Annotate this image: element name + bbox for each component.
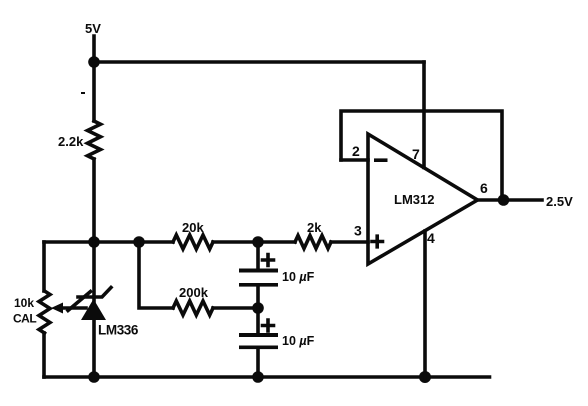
junction dot output node xyxy=(498,194,510,206)
plus sign C1 xyxy=(263,255,274,266)
junction dot rail LM336 xyxy=(88,371,100,383)
wire 5V lead down to 2.2k top xyxy=(92,36,96,121)
wire cap C1 top lead xyxy=(256,242,260,268)
label 2.2k xyxy=(58,134,84,149)
label 10uF C1 xyxy=(282,270,315,284)
wire LM336 vertical lead xyxy=(92,242,96,377)
junction dot cap mid node xyxy=(252,302,264,314)
junction dot mid node xyxy=(88,236,100,248)
resistor 20k zigzag xyxy=(173,235,213,249)
wire 2.2k bottom to mid node xyxy=(92,159,96,242)
wire cap C1 bottom to C2 top xyxy=(256,286,260,333)
resistor 200k zigzag xyxy=(173,301,213,315)
wire pin 4 drop to rail xyxy=(423,231,427,377)
label 10k xyxy=(14,296,34,310)
wire pin7 supply drop xyxy=(422,62,426,168)
junction dot cap top node xyxy=(252,236,264,248)
svg-text:10 µF: 10 µF xyxy=(282,334,315,348)
label LM336 xyxy=(98,323,139,338)
resistor 2.2k zigzag xyxy=(88,121,101,159)
label 2.5V xyxy=(546,194,573,209)
svg-text:2k: 2k xyxy=(307,220,322,235)
ground rail xyxy=(44,375,490,379)
svg-text:LM336: LM336 xyxy=(98,323,139,338)
svg-text:10 µF: 10 µF xyxy=(282,270,315,284)
op-amp LM312 triangle xyxy=(368,134,478,264)
pot wiper arrow xyxy=(51,303,86,314)
wire 2k to op-amp pin 3 xyxy=(331,240,368,244)
svg-text:3: 3 xyxy=(354,223,362,239)
junction dot rail pin4 xyxy=(419,371,431,383)
power label 5V xyxy=(85,21,101,36)
svg-text:5V: 5V xyxy=(85,21,101,36)
wire top rail from 5V node to pin7 drop xyxy=(94,60,424,64)
label 20k xyxy=(182,220,204,235)
capacitor C2 10uF plates xyxy=(239,333,278,349)
junction dot branch node xyxy=(133,236,145,248)
wire cap C2 bottom lead xyxy=(256,349,260,377)
wire output xyxy=(477,198,542,202)
svg-text:10k: 10k xyxy=(14,296,34,310)
stray scan dash xyxy=(81,92,85,94)
label 2k xyxy=(307,220,322,235)
svg-text:4: 4 xyxy=(427,230,435,246)
pin number 6 xyxy=(480,180,488,196)
svg-text:200k: 200k xyxy=(179,285,209,300)
junction dot rail cap xyxy=(252,371,264,383)
potentiometer 10k CAL zigzag xyxy=(39,291,50,333)
wire pot bottom lead xyxy=(42,333,46,377)
plus sign non-inverting input xyxy=(372,236,383,247)
minus sign inverting input xyxy=(374,158,388,162)
pin number 3 xyxy=(354,223,362,239)
svg-text:7: 7 xyxy=(412,146,420,162)
zener reference LM336 xyxy=(68,288,111,321)
wire pot top lead xyxy=(42,242,46,291)
label CAL xyxy=(13,312,36,326)
wire 20k to 2k through cap node xyxy=(213,240,295,244)
junction dot 5V node xyxy=(88,56,100,68)
svg-text:20k: 20k xyxy=(182,220,204,235)
wire mid horizontal row left to 20k xyxy=(44,240,173,244)
svg-text:CAL: CAL xyxy=(13,312,36,326)
plus sign C2 xyxy=(263,320,274,331)
wire branch down from node to 200k row xyxy=(139,242,173,308)
svg-text:LM312: LM312 xyxy=(394,192,434,207)
wire 200k to cap mid node xyxy=(213,306,258,310)
svg-text:2.2k: 2.2k xyxy=(58,134,84,149)
svg-text:2: 2 xyxy=(352,143,360,159)
label 10uF C2 xyxy=(282,334,315,348)
pin number 7 xyxy=(412,146,420,162)
pin number 4 xyxy=(427,230,435,246)
wire feedback loop xyxy=(341,111,502,200)
wire feedback pin2 stub xyxy=(341,158,368,162)
pin number 2 xyxy=(352,143,360,159)
resistor 2k zigzag xyxy=(295,236,331,249)
svg-text:6: 6 xyxy=(480,180,488,196)
label LM312 xyxy=(394,192,434,207)
capacitor C1 10uF plates xyxy=(239,269,278,287)
svg-text:2.5V: 2.5V xyxy=(546,194,573,209)
label 200k xyxy=(179,285,209,300)
